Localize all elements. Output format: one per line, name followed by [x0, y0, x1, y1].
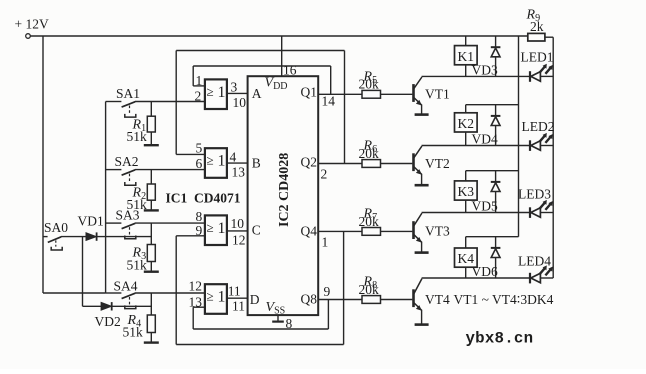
label R9 value [526, 8, 544, 35]
wire gate U1c output to IC2 [227, 230, 248, 232]
wire Q2 feedback down to pin 5 [175, 51, 177, 155]
ground (R1) [144, 144, 159, 146]
svg-text:51k: 51k [127, 258, 148, 273]
wire +12V left rail vertical [42, 36, 44, 293]
svg-text:20k: 20k [359, 282, 380, 297]
LED LED2 [530, 133, 553, 151]
svg-text:1: 1 [218, 289, 226, 306]
pin 16 wire VDD [281, 36, 283, 76]
label R3 value [127, 246, 148, 273]
relay coil K4 [455, 237, 478, 278]
svg-text:14: 14 [322, 94, 336, 109]
wire Q2 output to R6 [318, 163, 362, 165]
svg-text:9: 9 [324, 284, 331, 299]
wire R8 to VT base [381, 299, 413, 301]
label R8 20k [359, 275, 380, 297]
+12V supply terminal [15, 17, 49, 39]
svg-text:2: 2 [321, 167, 328, 182]
wire SA0 to VD1 [61, 236, 86, 238]
svg-text:6: 6 [196, 156, 203, 171]
relay coil K1 [455, 36, 478, 76]
IC U2 CD4028 box [248, 76, 319, 315]
diode VD6 [491, 237, 501, 278]
switch SA0 [43, 220, 68, 250]
wire Q8 feedback down [327, 300, 329, 330]
wire gate2 pin5 stub [176, 153, 205, 155]
svg-text:10: 10 [233, 95, 247, 110]
svg-text:B: B [252, 156, 261, 171]
transistor VT3 [414, 213, 422, 253]
svg-text:LED2: LED2 [522, 119, 555, 134]
svg-text:Q2: Q2 [301, 155, 318, 170]
svg-text:11: 11 [232, 299, 245, 314]
svg-text:IC1 CD4071: IC1 CD4071 [166, 191, 241, 206]
svg-text:10: 10 [231, 216, 245, 231]
wire K4 top supply line [466, 236, 519, 238]
wire Q1 output to R5 [318, 93, 362, 95]
wire VD2 cathode to node R4 [112, 305, 152, 307]
svg-text:8: 8 [196, 209, 203, 224]
svg-text:D: D [250, 292, 260, 307]
resistor R3 [147, 245, 155, 272]
svg-text:LED1: LED1 [521, 49, 554, 64]
resistor R2 [147, 170, 155, 210]
wire +12V feed vertical (relay supply) [518, 36, 520, 237]
wire Q8 feedback horizontal [193, 328, 328, 330]
wire node SA3/R3/VD1 vertical [150, 223, 152, 244]
diode VD1 [86, 232, 97, 240]
pin 8 VSS stub [272, 315, 284, 322]
svg-text:IC2 CD4028: IC2 CD4028 [277, 153, 292, 227]
svg-text:K3: K3 [458, 184, 475, 199]
wire Q2 feedback horizontal [176, 50, 344, 52]
svg-text:VT1: VT1 [425, 87, 450, 102]
wire bottom feed to SA4 [43, 292, 106, 294]
svg-text:VD3: VD3 [472, 63, 498, 78]
op-amp-style OR gate U1a (IC1) [205, 79, 227, 109]
label R5 20k [359, 69, 380, 91]
LED LED4 [530, 265, 553, 283]
ground (R4) [144, 341, 159, 343]
diode VD5 [491, 171, 501, 213]
wire +12V rail horizontal [30, 35, 528, 37]
wire Q1 feedback up [330, 66, 332, 94]
op-amp-style OR gate U1d (IC1) [205, 284, 227, 314]
wire SA3 to gate pin 8 [135, 222, 205, 224]
resistor R9 [528, 33, 553, 41]
svg-text:20k: 20k [359, 214, 380, 229]
ground (VT4 emitter) [415, 323, 429, 326]
wire node SA4/R4/VD2 vertical [150, 293, 152, 315]
wire gate U1a output to IC2 [227, 92, 248, 94]
wire gate1 pin1 stub [193, 85, 205, 87]
svg-text:2: 2 [195, 89, 202, 104]
wire VT2 collector line [422, 145, 530, 147]
wire VT4 collector line [422, 277, 530, 279]
wire VT1 collector line [422, 75, 530, 77]
svg-text:A: A [252, 86, 262, 101]
svg-text:SA0: SA0 [44, 220, 68, 235]
transistor VT4 [414, 279, 422, 325]
ground (VT2 emitter) [415, 184, 429, 187]
svg-text:≥: ≥ [207, 289, 214, 304]
resistor R7 [362, 228, 381, 236]
resistor R1 [147, 102, 155, 145]
switch SA2 [106, 170, 136, 186]
relay coil K2 [455, 105, 478, 146]
wire Q1 feedback horizontal [193, 65, 331, 67]
svg-text:SA4: SA4 [114, 279, 138, 294]
svg-text:K2: K2 [458, 116, 475, 131]
wire K2 top supply line [466, 104, 519, 106]
ground (R3) [144, 271, 159, 273]
svg-text:11: 11 [228, 284, 241, 299]
relay coil K3 [455, 171, 478, 213]
svg-text:SA2: SA2 [115, 154, 139, 169]
svg-text:12: 12 [189, 279, 203, 294]
svg-text:≥: ≥ [207, 84, 214, 99]
svg-text:≥: ≥ [207, 153, 214, 168]
svg-text:2k: 2k [530, 19, 544, 34]
wire SA0 branch down to VD2 [82, 237, 84, 307]
label R2 value [127, 186, 148, 213]
switch SA3 [106, 223, 136, 239]
svg-text:16: 16 [283, 63, 297, 78]
ground (VT1 emitter) [415, 113, 429, 116]
svg-text:4: 4 [230, 150, 237, 165]
svg-text:SA3: SA3 [116, 208, 140, 223]
svg-text:51k: 51k [123, 325, 144, 340]
resistor R4 [147, 315, 155, 342]
label R6 20k [359, 139, 380, 161]
svg-text:VT4: VT4 [425, 292, 450, 307]
svg-text:Q1: Q1 [301, 85, 318, 100]
svg-text:1: 1 [218, 84, 226, 101]
svg-text:+ 12V: + 12V [15, 17, 49, 32]
svg-text:VT3: VT3 [425, 224, 450, 239]
wire SA2 to gate pin 6 [135, 169, 205, 171]
svg-text:12: 12 [232, 233, 246, 248]
wire Q1 feedback down to pin 1 [192, 66, 194, 86]
svg-text:51k: 51k [127, 129, 148, 144]
svg-text:1: 1 [218, 153, 226, 170]
svg-text:20k: 20k [359, 77, 380, 92]
wire LED anode rail [552, 37, 554, 278]
svg-text:3: 3 [231, 80, 238, 95]
wire Q4 feedback up to pin 9 [175, 236, 177, 345]
svg-text:Q4: Q4 [301, 224, 318, 239]
svg-text:≥: ≥ [207, 220, 214, 235]
op-amp-style OR gate U1b (IC1) [205, 148, 227, 178]
wire R5 to VT base [381, 93, 413, 95]
LED LED3 [530, 200, 553, 218]
wire Q4 output to R7 [318, 230, 362, 232]
svg-text:LED4: LED4 [518, 253, 551, 268]
wire SA1 to gate pin 2 [135, 101, 205, 103]
wire Q8 feedback up to pin 13 [192, 307, 194, 329]
svg-text:VD4: VD4 [472, 132, 498, 147]
diode VD3 [491, 36, 501, 76]
svg-text:20k: 20k [359, 146, 380, 161]
svg-text:VD5: VD5 [472, 199, 498, 214]
resistor R5 [362, 90, 381, 98]
svg-text:VT2: VT2 [425, 156, 450, 171]
svg-text:LED3: LED3 [518, 186, 551, 201]
svg-text:Q8: Q8 [301, 292, 318, 307]
svg-text:ybx8.cn: ybx8.cn [466, 330, 534, 348]
wire Q2 feedback up [344, 51, 346, 164]
svg-text:VD6: VD6 [472, 264, 498, 279]
svg-text:1: 1 [218, 220, 226, 237]
wire Q4 feedback horizontal [176, 344, 343, 346]
wire Q8 output to R8 [318, 299, 362, 301]
svg-text:5: 5 [196, 141, 203, 156]
label R4 value [123, 313, 144, 340]
transistor VT2 [414, 146, 422, 185]
wire VT3 collector line [422, 212, 530, 214]
svg-text:SA1: SA1 [116, 86, 140, 101]
LED LED1 [530, 64, 553, 82]
svg-text:K1: K1 [458, 49, 475, 64]
ground (VT3 emitter) [415, 251, 429, 254]
resistor R6 [362, 160, 381, 168]
wire to VD2 anode [83, 305, 102, 307]
transistor VT1 [414, 77, 422, 115]
wire gate U1d output to IC2 [227, 297, 248, 299]
switch SA1 [106, 102, 136, 118]
svg-text:13: 13 [232, 165, 246, 180]
svg-text:C: C [252, 223, 261, 238]
switch SA4 [106, 293, 136, 309]
wire R6 to VT base [381, 163, 413, 165]
ground (R2) [144, 209, 159, 211]
wire K3 top supply line [466, 170, 519, 172]
op-amp-style OR gate U1c (IC1) [205, 215, 227, 245]
svg-text:VD1: VD1 [78, 214, 104, 229]
svg-text:VT1 ~ VT4∶3DK4: VT1 ~ VT4∶3DK4 [454, 292, 554, 307]
diode VD4 [491, 105, 501, 146]
label R1 value [127, 118, 148, 145]
wire VD1 cathode to node R3 [97, 236, 152, 238]
wire switch common rail [105, 102, 107, 294]
wire Q4 feedback down [343, 231, 345, 344]
wire R7 to VT base [381, 230, 413, 232]
label R7 20k [359, 206, 380, 228]
diode VD2 [101, 302, 112, 310]
svg-text:1: 1 [322, 235, 329, 250]
wire gate4 pin13 stub [193, 306, 205, 308]
wire gate U1b output to IC2 [227, 162, 248, 164]
wire gate3 pin9 stub [176, 235, 205, 237]
wire SA4 to gate pin 12 [135, 292, 205, 294]
svg-text:VD2: VD2 [95, 314, 121, 329]
resistor R8 [362, 296, 381, 304]
